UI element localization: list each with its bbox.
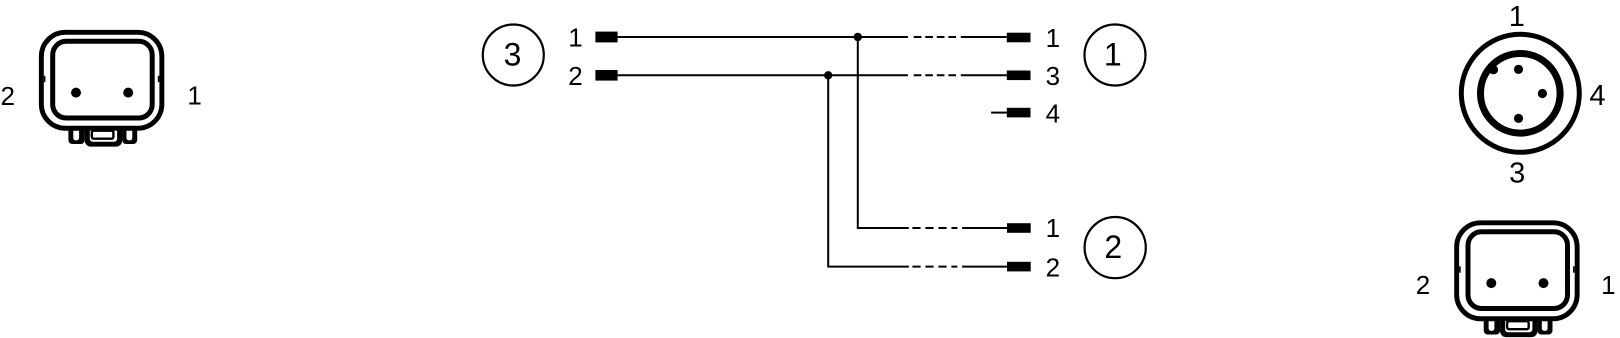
svg-text:1: 1 [568, 23, 582, 53]
svg-text:2: 2 [0, 81, 14, 111]
svg-text:1: 1 [1046, 213, 1060, 243]
svg-text:2: 2 [1416, 270, 1430, 300]
svg-text:1: 1 [1509, 1, 1525, 33]
svg-text:1: 1 [1046, 23, 1060, 53]
svg-text:3: 3 [504, 37, 522, 73]
svg-text:3: 3 [1509, 157, 1525, 189]
svg-text:1: 1 [1104, 37, 1122, 73]
svg-text:2: 2 [1104, 229, 1122, 265]
svg-text:2: 2 [1046, 252, 1060, 282]
svg-text:3: 3 [1046, 61, 1060, 91]
svg-text:1: 1 [187, 81, 201, 111]
svg-text:4: 4 [1589, 80, 1605, 112]
svg-text:2: 2 [568, 61, 582, 91]
svg-text:1: 1 [1601, 270, 1615, 300]
svg-text:4: 4 [1046, 98, 1060, 128]
